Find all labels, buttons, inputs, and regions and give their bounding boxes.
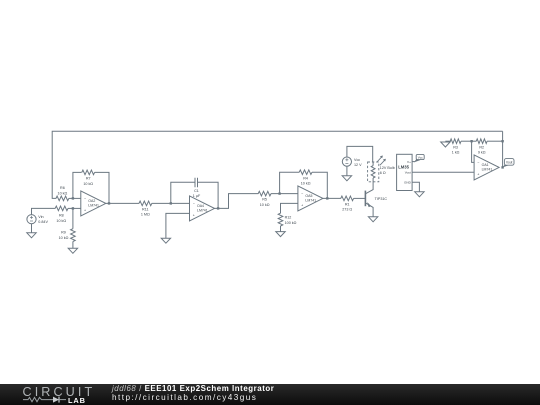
svg-text:10 kΩ: 10 kΩ bbox=[58, 191, 68, 195]
svg-text:+: + bbox=[301, 204, 303, 208]
svg-text:R7: R7 bbox=[86, 177, 91, 181]
resistor R6 bbox=[56, 196, 69, 201]
resistor R3 bbox=[450, 139, 461, 144]
lamp L1 12V Bulb bbox=[368, 162, 379, 182]
svg-text:−: − bbox=[477, 161, 479, 165]
svg-text:R5: R5 bbox=[262, 198, 267, 202]
svg-text:−: − bbox=[84, 197, 86, 201]
wire Vin to R8 bbox=[32, 208, 56, 214]
svg-text:10 kΩ: 10 kΩ bbox=[56, 219, 66, 223]
wire R5 to OA5 inverting input bbox=[271, 193, 298, 195]
svg-text:6 Ω: 6 Ω bbox=[380, 171, 386, 175]
wire junction to OA1 inverting input bbox=[472, 141, 475, 162]
wire LM35 Vout to OA1 plus input bbox=[412, 171, 474, 173]
svg-text:+: + bbox=[84, 209, 86, 213]
svg-text:−: − bbox=[193, 202, 195, 206]
voltage source Vcc 12V bbox=[342, 157, 351, 166]
svg-text:TIP31C: TIP31C bbox=[375, 197, 388, 201]
resistor R5 bbox=[258, 191, 271, 196]
resistor R2 bbox=[476, 139, 487, 144]
wire Vcc to bulb bbox=[347, 146, 373, 162]
wire OA4 output bbox=[215, 194, 259, 209]
wire R8 to OA2 plus input bbox=[68, 207, 81, 209]
resistor R8 bbox=[55, 206, 68, 211]
svg-text:10 kΩ: 10 kΩ bbox=[260, 203, 270, 207]
svg-text:LM741: LM741 bbox=[88, 204, 99, 208]
ground for Vin bbox=[31, 224, 33, 233]
svg-text:1 MΩ: 1 MΩ bbox=[141, 213, 150, 217]
ground for Vcc bbox=[346, 166, 348, 176]
svg-text:0.84V: 0.84V bbox=[38, 220, 48, 224]
svg-text:+: + bbox=[477, 173, 479, 177]
svg-text:R1: R1 bbox=[345, 202, 350, 206]
wire OA5 output to R1 bbox=[323, 197, 341, 199]
footer url bbox=[112, 393, 257, 402]
svg-text:R12: R12 bbox=[285, 216, 292, 220]
svg-text:R6: R6 bbox=[60, 186, 65, 190]
op-amp OA2 bbox=[81, 191, 106, 216]
svg-text:R4: R4 bbox=[303, 176, 308, 180]
svg-text:GND: GND bbox=[404, 181, 412, 185]
CircuitLab logo bbox=[23, 385, 96, 399]
IC U1 LM35 bbox=[397, 154, 413, 190]
flag Vout on OA1 output bbox=[503, 163, 509, 167]
svg-text:+: + bbox=[193, 214, 195, 218]
resistor R9 to ground bbox=[72, 208, 74, 228]
resistor R11 bbox=[139, 201, 152, 206]
voltage source Vin 0.84V bbox=[27, 215, 36, 224]
svg-text:−: − bbox=[301, 192, 303, 196]
svg-text:LM741: LM741 bbox=[197, 209, 208, 213]
node OA4 output junction bbox=[217, 207, 219, 209]
op-amp OA1 bbox=[474, 155, 499, 180]
capacitor C1 feedback bbox=[171, 182, 195, 203]
ground for R3 bbox=[441, 142, 450, 147]
node OA4 minus input junction bbox=[170, 202, 172, 204]
node OA5 minus input junction bbox=[278, 192, 280, 194]
node OA2 output junction bbox=[108, 202, 110, 204]
svg-text:12V Bulb: 12V Bulb bbox=[380, 166, 395, 170]
svg-text:OA2: OA2 bbox=[88, 199, 95, 203]
svg-text:9 kΩ: 9 kΩ bbox=[478, 151, 486, 155]
node OA1 output junction bbox=[501, 166, 503, 168]
svg-text:273 Ω: 273 Ω bbox=[342, 208, 352, 212]
svg-text:10 kΩ: 10 kΩ bbox=[83, 182, 93, 186]
svg-text:LM741: LM741 bbox=[482, 168, 493, 172]
resistor R4 feedback bbox=[280, 172, 300, 193]
wire R2 to feedback rail bbox=[487, 140, 503, 142]
node OA2 minus input junction bbox=[72, 197, 74, 199]
wire R1 to transistor base bbox=[354, 197, 366, 199]
flag Vcc on LM35 V+ pin bbox=[412, 161, 415, 163]
svg-text:10 kΩ: 10 kΩ bbox=[59, 236, 69, 240]
op-amp OA4 bbox=[190, 196, 215, 221]
svg-text:Vout: Vout bbox=[405, 170, 411, 174]
svg-text:C1: C1 bbox=[194, 189, 199, 193]
wire R6 to OA2 inverting input bbox=[69, 197, 81, 199]
footer title bbox=[112, 384, 274, 393]
svg-text:OA4: OA4 bbox=[197, 204, 204, 208]
node OA5 output junction bbox=[326, 197, 328, 199]
svg-text:Vcc: Vcc bbox=[354, 158, 360, 162]
node OA2 plus input junction bbox=[72, 207, 74, 209]
svg-text:LM741: LM741 bbox=[305, 199, 316, 203]
svg-text:R3: R3 bbox=[453, 145, 458, 149]
svg-text:100 kΩ: 100 kΩ bbox=[285, 221, 297, 225]
svg-text:R2: R2 bbox=[479, 145, 484, 149]
svg-text:OA1: OA1 bbox=[482, 163, 489, 167]
svg-text:Vcc: Vcc bbox=[418, 155, 424, 159]
svg-text:Vout: Vout bbox=[506, 160, 512, 164]
wire feedback net from Vout (top rail) bbox=[502, 131, 504, 167]
svg-text:12 V: 12 V bbox=[354, 163, 362, 167]
transistor Q1 TIP31C bbox=[364, 191, 366, 207]
ground for OA4 plus input bbox=[166, 213, 190, 238]
wire R11 to OA4 inverting input bbox=[152, 202, 190, 204]
op-amp OA5 bbox=[298, 186, 323, 211]
node R3 R2 junction bbox=[470, 140, 472, 142]
svg-text:R8: R8 bbox=[59, 214, 64, 218]
ground for LM35 GND pin bbox=[412, 182, 419, 192]
resistor R1 bbox=[341, 196, 354, 201]
resistor R7 feedback bbox=[73, 172, 82, 198]
svg-text:R11: R11 bbox=[142, 207, 149, 211]
svg-text:10 kΩ: 10 kΩ bbox=[301, 182, 311, 186]
svg-text:Vin: Vin bbox=[38, 215, 43, 219]
wire R3 to node bbox=[461, 140, 476, 142]
svg-text:R9: R9 bbox=[61, 231, 66, 235]
svg-text:V+: V+ bbox=[407, 160, 411, 164]
ground for transistor emitter bbox=[368, 217, 377, 222]
wire OA2 output to R11 bbox=[106, 202, 139, 204]
resistor R12 to ground bbox=[281, 203, 298, 213]
svg-text:LM35: LM35 bbox=[398, 165, 409, 170]
svg-text:OA5: OA5 bbox=[305, 194, 312, 198]
svg-text:1 kΩ: 1 kΩ bbox=[452, 151, 460, 155]
node feedback rail junction bbox=[501, 140, 503, 142]
